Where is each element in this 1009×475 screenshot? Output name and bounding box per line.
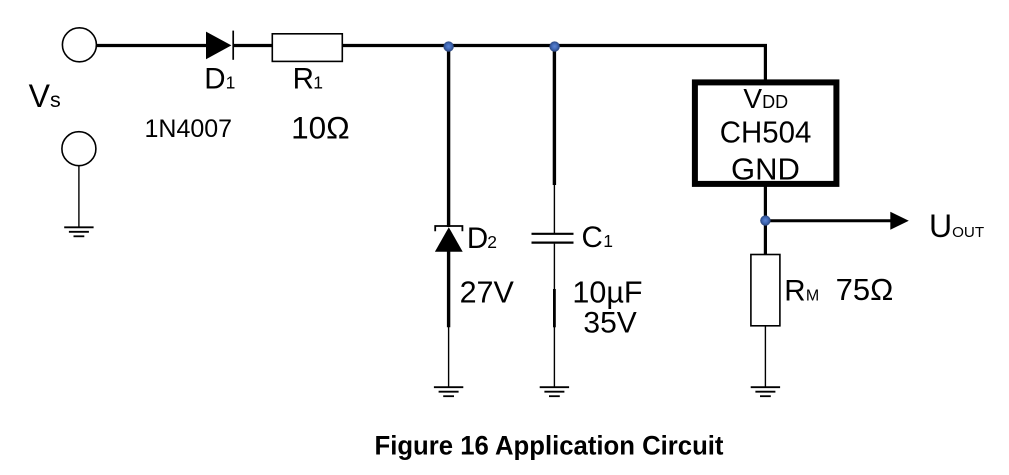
svg-text:Figure 16 Application Circuit: Figure 16 Application Circuit [375, 431, 724, 461]
wire D1 to R1 [233, 44, 273, 47]
svg-text:75Ω: 75Ω [836, 272, 894, 307]
svg-text:10µF: 10µF [572, 275, 642, 309]
wire node B to VDD pin [554, 44, 767, 80]
node B junction dot [549, 41, 559, 51]
ground (Vs) [64, 227, 93, 236]
svg-text:GND: GND [731, 152, 800, 187]
svg-text:CH504: CH504 [720, 115, 812, 150]
wire node B to C1 (thin) [553, 185, 555, 233]
wire D2 to ground (thick) [447, 251, 450, 327]
svg-text:27V: 27V [460, 276, 515, 310]
wire C1 to ground (thick) [553, 289, 556, 327]
ground (RM) [751, 387, 780, 396]
wire D2 to ground (thin) [448, 327, 450, 387]
output arrow [765, 212, 908, 230]
ground (D2) [434, 387, 463, 396]
wire Vs bottom to ground [78, 166, 80, 228]
wire C1 to ground (thin upper) [553, 244, 555, 289]
node A junction dot [443, 41, 453, 51]
ground (C1) [540, 387, 569, 396]
terminal circle Vs top [62, 28, 96, 62]
wire Vs to D1 [96, 44, 207, 47]
wire R1 to node A [342, 44, 448, 47]
wire node B to C1 (thick) [553, 47, 556, 185]
svg-text:1N4007: 1N4007 [145, 115, 233, 143]
svg-text:10Ω: 10Ω [291, 110, 350, 146]
zener diode D2 [435, 226, 463, 252]
IC U1 CH504 box [695, 82, 837, 183]
svg-text:35V: 35V [583, 307, 636, 340]
wire node C to RM [764, 221, 767, 256]
wire C1 to ground (thin lower) [553, 327, 555, 387]
diode D1 [206, 31, 233, 60]
wire RM to ground [764, 326, 766, 387]
resistor R1 [272, 34, 342, 62]
resistor RM [751, 255, 780, 326]
capacitor C1 [532, 234, 574, 243]
wire node A to D2 [447, 47, 450, 227]
terminal circle Vs bottom [62, 132, 96, 166]
node C junction dot [760, 215, 770, 225]
wire node A to node B [449, 44, 555, 47]
wire GND pin to node C [764, 185, 767, 222]
